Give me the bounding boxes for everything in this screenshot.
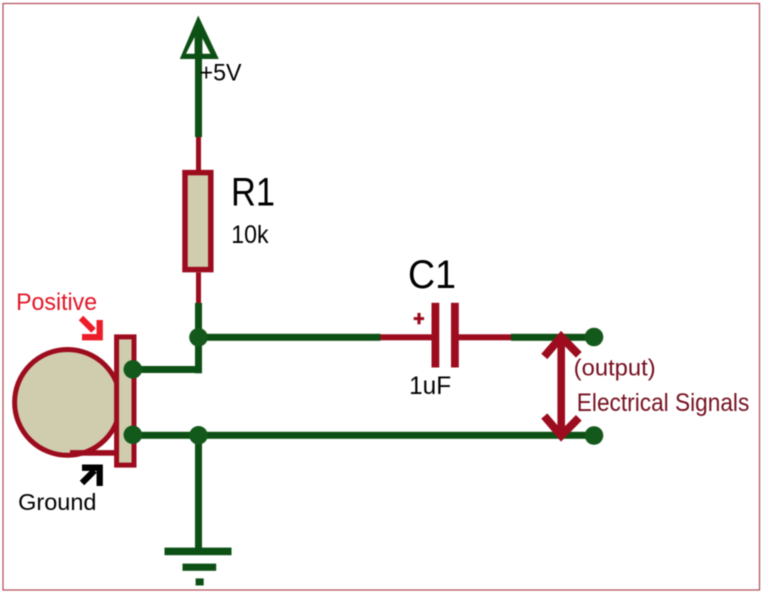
svg-text:+5V: +5V	[200, 59, 242, 86]
svg-text:(output): (output)	[574, 355, 656, 381]
svg-text:C1: C1	[408, 253, 456, 297]
svg-text:Electrical Signals: Electrical Signals	[577, 389, 750, 417]
svg-text:1uF: 1uF	[409, 372, 451, 400]
svg-text:10k: 10k	[231, 221, 269, 249]
svg-text:R1: R1	[231, 171, 275, 215]
svg-text:Positive: Positive	[16, 289, 97, 316]
svg-text:Ground: Ground	[18, 489, 96, 515]
